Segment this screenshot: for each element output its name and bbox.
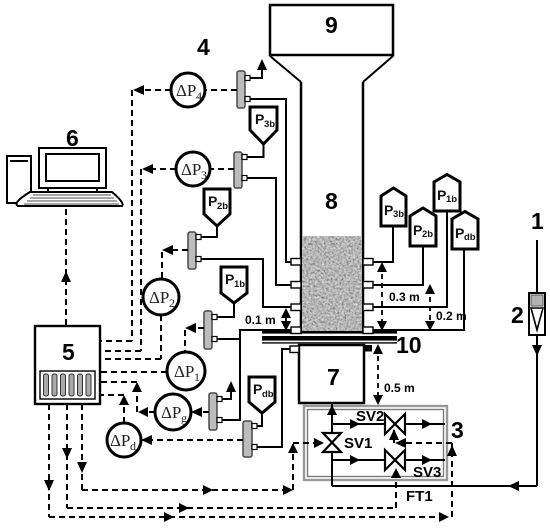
svg-text:4: 4: [196, 89, 202, 103]
dashed bus dP3 into DAQ: [100, 350, 141, 352]
windbox right port (black): [363, 345, 372, 352]
P3b right line to tap1: [373, 226, 393, 262]
dashed control bus SV1: [77, 404, 324, 495]
T3 line to tap2: [247, 178, 291, 285]
P2b right line to tap2: [373, 246, 423, 285]
gas line: riser into windbox through SV1: [327, 404, 337, 486]
transducer Td: [243, 421, 257, 457]
svg-text:P: P: [384, 202, 393, 218]
svg-text:1: 1: [531, 208, 544, 234]
transducer T3: [234, 152, 247, 188]
svg-text:3: 3: [201, 168, 207, 182]
dashed signal: dP1 to DAQ: [100, 371, 167, 373]
svg-text:1: 1: [194, 370, 200, 384]
svg-text:3b: 3b: [264, 119, 275, 130]
svg-text:FT1: FT1: [406, 488, 433, 505]
SV2 branch pipe: [332, 419, 445, 429]
SV3 branch pipe: [332, 455, 445, 465]
gauge circle dP2: [143, 279, 179, 315]
Td line to windbox tap: [257, 349, 290, 447]
svg-text:1b: 1b: [234, 279, 245, 290]
valve SV1: [323, 433, 372, 452]
svg-text:ΔP: ΔP: [174, 362, 194, 381]
dashed control bus SV2: [44, 404, 457, 522]
dashed bus dP3 vertical: [140, 169, 142, 351]
valve SV3: [385, 450, 441, 481]
svg-text:10: 10: [396, 332, 422, 358]
svg-text:P: P: [253, 381, 262, 397]
gauge circle dPg: [155, 394, 191, 430]
pressure taps right wall: [363, 259, 373, 334]
gauge circle dPd: [107, 423, 141, 457]
svg-text:3: 3: [451, 417, 464, 443]
svg-text:P: P: [437, 187, 446, 203]
svg-text:ΔP: ΔP: [176, 81, 196, 100]
svg-text:9: 9: [325, 12, 338, 38]
Pdb gauge (right): [452, 212, 478, 250]
dashed bus dP4 vertical: [131, 90, 133, 341]
svg-text:0.5 m: 0.5 m: [384, 381, 415, 395]
Pdb stem to Td: [257, 413, 262, 426]
dashed signal: T4 to dP4 circle: [206, 89, 237, 91]
svg-text:0.1 m: 0.1 m: [245, 313, 276, 327]
valve box 3: [304, 406, 464, 480]
svg-text:0.3 m: 0.3 m: [389, 290, 420, 304]
column 8: [301, 82, 363, 332]
dashed signal: dPg to DAQ: [100, 382, 155, 417]
P1b right line to tap3: [373, 211, 447, 307]
Pdb right line to tap4: [373, 249, 464, 330]
svg-text:2: 2: [511, 302, 524, 328]
measure 0.2 m: [425, 284, 467, 331]
measure 0.3 m: [377, 262, 420, 331]
DAQ box 5: [35, 326, 100, 404]
computer 6: [7, 125, 123, 206]
svg-text:d: d: [130, 439, 136, 453]
T4 line to tap1: [250, 99, 291, 262]
dashed signal: T3 to dP3 circle: [211, 168, 234, 170]
svg-text:4: 4: [197, 34, 210, 60]
P1b gauge (right): [434, 175, 460, 212]
svg-text:SV3: SV3: [413, 464, 441, 481]
svg-text:8: 8: [325, 188, 338, 214]
gauge circle dP1: [167, 352, 205, 390]
hopper 9: [270, 5, 393, 82]
P1b stem to T1: [217, 303, 234, 317]
P3b gauge (right): [381, 188, 406, 226]
T2 line to tap3: [201, 259, 291, 307]
transducer T1: [204, 311, 217, 349]
gas line: bottom horizontal: [332, 481, 537, 491]
transducer Tg: [209, 393, 222, 430]
svg-text:1b: 1b: [446, 194, 457, 205]
svg-text:7: 7: [327, 364, 340, 390]
measure 0.5 m: [373, 344, 415, 405]
svg-text:P: P: [225, 271, 234, 287]
granular bed: [302, 236, 362, 332]
gas supply line 1: [531, 208, 544, 293]
svg-text:SV1: SV1: [344, 435, 372, 452]
dashed signal: T2 to dP2 circle: [162, 245, 188, 279]
P2b stem to T2: [201, 226, 217, 237]
svg-text:0.2 m: 0.2 m: [436, 309, 467, 323]
dashed signal: dP2 to DAQ: [100, 315, 161, 359]
dashed bus dP4 into DAQ: [100, 340, 132, 342]
dashed signal: dPd to DAQ: [100, 395, 129, 423]
svg-text:db: db: [262, 389, 274, 400]
valve SV2: [356, 408, 405, 434]
shared line down to Tg: [222, 330, 240, 420]
P3b stem to T3: [247, 144, 264, 157]
svg-text:g: g: [181, 411, 187, 425]
svg-text:2b: 2b: [217, 201, 228, 212]
windbox left tap: [290, 346, 299, 353]
transducer T4: [237, 71, 250, 108]
T1 line to tap4 junction: [217, 330, 291, 339]
P2b gauge (left): [204, 189, 230, 226]
gauge circle dP3: [176, 152, 210, 186]
P1b gauge (left): [221, 267, 247, 303]
P2b gauge (right): [410, 208, 436, 246]
svg-text:ΔP: ΔP: [161, 403, 181, 422]
svg-text:P: P: [255, 111, 264, 127]
dashed signal: dP4 to bus: [133, 85, 171, 95]
svg-text:db: db: [464, 232, 476, 243]
svg-text:ΔP: ΔP: [110, 431, 130, 450]
svg-text:3b: 3b: [393, 209, 404, 220]
dashed signal: T1 to dP1 circle: [185, 323, 204, 352]
svg-text:ΔP: ΔP: [181, 160, 201, 179]
T4 vent line to atmosphere: [250, 59, 267, 78]
dashed link DAQ to computer: [61, 209, 71, 326]
transducer T2: [188, 232, 201, 269]
svg-text:ΔP: ΔP: [149, 288, 169, 307]
svg-text:P: P: [413, 222, 422, 238]
svg-text:5: 5: [62, 339, 75, 365]
svg-text:2b: 2b: [422, 229, 433, 240]
dashed signal: Td to dPd circle: [141, 435, 243, 445]
svg-text:P: P: [455, 225, 464, 241]
flange 10 (distributor plate): [262, 331, 422, 358]
P3b gauge (left): [250, 107, 277, 144]
svg-text:2: 2: [169, 296, 175, 310]
svg-text:SV2: SV2: [356, 408, 384, 425]
gas line: rotameter down: [532, 335, 542, 486]
dashed signal: Tg to dPg circle: [191, 407, 209, 417]
dashed signal: dP3 to bus: [142, 164, 176, 174]
svg-text:P: P: [208, 193, 217, 209]
windbox 7: [299, 345, 364, 403]
rotameter 2: [511, 293, 545, 335]
Pdb gauge (left): [249, 377, 275, 413]
dashed control bus SV3: [62, 404, 401, 513]
measure 0.1 m: [245, 308, 291, 331]
pressure taps left wall: [291, 259, 301, 334]
Tg vent to atmosphere: [222, 381, 236, 399]
gauge circle dP4: [171, 73, 205, 107]
